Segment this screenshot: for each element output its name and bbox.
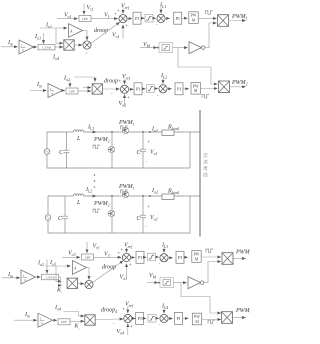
transistor Q2 circuit2: [93, 195, 115, 233]
node Im input row2: [30, 82, 46, 91]
node Vo1 wire row1: [57, 13, 78, 20]
svg-text:母: 母: [203, 166, 208, 172]
svg-text:Im: Im: [36, 82, 42, 89]
source V1: [44, 149, 50, 155]
svg-text:Vo2: Vo2: [119, 101, 127, 108]
summer V row1: [119, 15, 127, 23]
wire PWM to gate row4: [202, 319, 221, 321]
node VM label: [140, 42, 159, 49]
wire comparator to NOT: [173, 47, 188, 49]
wire droop row2: [103, 79, 120, 97]
svg-text:Vrf: Vrf: [87, 5, 94, 12]
svg-text:PWM4: PWM4: [235, 308, 250, 315]
svg-text:Io2: Io2: [37, 261, 44, 268]
summer V row4: [124, 314, 132, 322]
capacitor Cin2: [58, 196, 68, 233]
node Vo3 wire row3: [62, 251, 80, 258]
svg-text:Io2: Io2: [151, 188, 158, 195]
svg-text:Io2: Io2: [63, 76, 70, 83]
summer droop row3: [85, 280, 93, 288]
svg-text:PWM2: PWM2: [93, 137, 110, 144]
multiplier X1 row1: [64, 40, 74, 50]
multiplier X row3: [67, 278, 77, 288]
svg-text:Vo1: Vo1: [64, 13, 72, 20]
resistor Rload1: [162, 125, 180, 136]
svg-text:PWM1: PWM1: [118, 184, 135, 191]
node bus label: [203, 152, 208, 179]
svg-text:+: +: [119, 79, 122, 84]
limiter row4: [144, 315, 156, 323]
svg-text:流: 流: [203, 159, 208, 166]
node Io1 circuit1: [149, 127, 158, 134]
node IL2 row2: [160, 73, 167, 84]
PI controller U2 row1: [165, 12, 182, 24]
svg-text:Io1: Io1: [151, 127, 158, 134]
svg-text:PWM2: PWM2: [231, 80, 248, 87]
NOT gate U6: [188, 277, 204, 289]
summer I row2: [155, 85, 168, 98]
node Io1 wire row1: [40, 23, 67, 44]
node Io3 label row1: [34, 33, 44, 44]
gate multiplier row1: [218, 15, 229, 27]
wire comparator down to gate row4: [181, 283, 221, 313]
inductor L1: [74, 130, 84, 142]
droop diagonal row3: [93, 256, 123, 283]
svg-text:Io4: Io4: [54, 305, 61, 312]
svg-text:droop4: droop4: [101, 308, 117, 315]
PWM generator row1: [182, 12, 199, 24]
wire amp to filter row2: [63, 90, 65, 92]
wire amp to filter row4: [53, 319, 57, 321]
summer droop row1: [83, 41, 91, 55]
svg-text:+: +: [117, 8, 120, 13]
node PWM4 output row4: [233, 308, 252, 318]
svg-text:Vref: Vref: [122, 74, 131, 81]
amplifier 1/n row3: [21, 270, 36, 284]
node Vo2 circuit2: [146, 204, 158, 229]
PI controller U2 row3: [168, 251, 184, 263]
resistor Rload2: [162, 189, 180, 200]
wire PWM to gate row3: [201, 256, 221, 258]
transistor Q2 circuit1: [93, 131, 115, 168]
svg-text:droop: droop: [104, 79, 118, 85]
svg-text:Rload: Rload: [167, 125, 180, 132]
svg-text:VM: VM: [149, 273, 157, 280]
node PWM1 output row1: [229, 14, 248, 21]
svg-text:droop: droop: [94, 28, 108, 34]
filter LPF3 row3: [42, 274, 59, 280]
wire AC bus: [199, 110, 201, 237]
svg-text:V1: V1: [104, 13, 110, 20]
node IL3 row3: [161, 243, 168, 253]
wire X1 to summer row1: [74, 44, 82, 46]
PI controller U1 row1: [127, 12, 141, 24]
PI controller U2 row4: [168, 312, 182, 324]
svg-text:Vo4: Vo4: [117, 329, 125, 336]
svg-text:+: +: [148, 204, 151, 209]
wire droop row4: [95, 308, 123, 327]
svg-text:Rload: Rload: [167, 189, 180, 196]
node Vo4 feedback row4: [117, 324, 134, 336]
droop diagonal row1: [91, 20, 119, 44]
svg-text:+: +: [148, 139, 151, 144]
pulse glyph row4: [208, 320, 215, 323]
svg-text:+: +: [129, 262, 132, 267]
node Io2 label row2: [63, 76, 70, 87]
source V2: [45, 215, 51, 221]
PI controller U1 row3: [131, 251, 144, 263]
filter LPF1 row1: [38, 44, 55, 50]
amplifier 1/n row4: [38, 313, 53, 327]
capacitor Cin1: [59, 132, 70, 168]
wire comparator down to gate row2: [178, 48, 217, 84]
wire PWM to gate row1: [198, 17, 216, 19]
svg-text:IL1: IL1: [87, 125, 94, 132]
node PWM3 output row3: [233, 250, 252, 259]
node Im input row3: [2, 272, 20, 279]
svg-text:Vo2: Vo2: [150, 215, 158, 222]
svg-text:Io4: Io4: [52, 55, 59, 62]
wire NOT up to gate row1: [205, 23, 216, 48]
svg-text:IL4: IL4: [161, 304, 168, 311]
svg-text:1: 1: [86, 51, 88, 55]
transistor Q1 circuit2: [118, 184, 135, 198]
wire PWM to gate row2: [200, 88, 217, 90]
svg-text:IL1: IL1: [159, 3, 166, 10]
wire circuit2 top rail: [48, 195, 200, 197]
svg-text:PWM2: PWM2: [93, 201, 110, 208]
transistor Q1 circuit1: [118, 120, 135, 134]
amplifier 1/n row2: [48, 84, 63, 98]
node Io2 bracket row2: [74, 77, 95, 82]
multiplier X row2: [92, 84, 102, 94]
svg-text:Vref: Vref: [125, 302, 134, 309]
svg-text:PWM1: PWM1: [231, 14, 248, 21]
gate multiplier row4: [222, 312, 233, 324]
node Io2 circuit2: [149, 188, 158, 197]
pulse glyph row3: [206, 249, 213, 252]
limiter row3: [144, 253, 156, 261]
svg-text:Vref: Vref: [121, 4, 130, 11]
PWM generator row3: [184, 251, 201, 263]
svg-text:Vo3: Vo3: [120, 275, 128, 282]
summer V row3: [122, 253, 130, 261]
svg-text:Io3: Io3: [49, 260, 56, 267]
wire NOT up to gate row3: [204, 262, 221, 283]
node Io4 bracket row4: [54, 305, 84, 316]
svg-text:PWM1: PWM1: [118, 120, 135, 127]
PI controller U1 row4: [132, 312, 144, 324]
gate multiplier row3: [222, 253, 233, 265]
gate multiplier row2: [219, 81, 230, 93]
node PWM2 output row2: [230, 80, 248, 87]
node Io2 label row3: [37, 260, 47, 274]
node Im input row1: [1, 40, 18, 47]
filter LPF4 row4: [58, 319, 80, 331]
pulse glyph row2: [202, 95, 209, 98]
multiplier X row4: [85, 315, 95, 325]
svg-text:Im: Im: [7, 40, 13, 47]
svg-text:+: +: [127, 95, 130, 100]
summer V row2: [120, 85, 128, 93]
capacitor Co2: [137, 195, 147, 233]
node Im input row4: [14, 312, 37, 320]
node Vo1 circuit1: [146, 139, 158, 164]
limiter row1: [141, 14, 153, 22]
svg-text:IL2: IL2: [85, 187, 92, 194]
wire amp to filter row3: [36, 276, 41, 278]
svg-text:+: +: [121, 247, 124, 252]
wire LPF1 to multiplier row1: [52, 47, 63, 61]
node dots between circuits: [94, 174, 96, 188]
summer I row3: [156, 254, 169, 266]
wire circuit1 top rail: [47, 131, 200, 133]
limiter row2: [142, 85, 155, 93]
NOT gate U3: [189, 42, 205, 54]
node IL4 row4: [161, 304, 168, 314]
PWM generator row2: [183, 83, 200, 95]
svg-text:Vref: Vref: [124, 243, 133, 250]
wire circuit2 loop: [48, 196, 190, 233]
node Vo2 feedback row2: [119, 95, 131, 108]
PI controller U1 row2: [129, 83, 142, 95]
node VM label row3: [147, 273, 160, 284]
wire k to summer row3: [87, 268, 90, 280]
svg-text:Io3: Io3: [34, 34, 41, 41]
PWM generator row4: [183, 313, 202, 325]
wire LPF to multiplier row2: [78, 88, 91, 92]
wire LPF4 to multiplier row4: [70, 320, 84, 322]
svg-text:+: +: [130, 324, 133, 329]
svg-text:线: 线: [203, 172, 208, 179]
node Io3 wire row3: [45, 260, 71, 281]
wire LPF3 to multiplier row3: [56, 277, 62, 295]
amplifier 1/n row1: [19, 40, 34, 54]
gain k row1: [69, 24, 83, 38]
comparator block row3: [160, 278, 174, 288]
svg-text:L: L: [76, 200, 81, 206]
wire amp to filter row1: [34, 46, 37, 48]
svg-text:Vo3: Vo3: [68, 251, 76, 258]
svg-text:Im: Im: [24, 312, 30, 319]
node Vref row3: [121, 243, 133, 253]
PI controller U2 row2: [167, 83, 183, 95]
node Vref row1: [117, 4, 130, 14]
node IL2 circuit2: [85, 187, 96, 196]
svg-text:交: 交: [203, 152, 208, 159]
comparator block: [159, 43, 173, 53]
svg-text:IL3: IL3: [161, 243, 168, 250]
wire k to summer row1: [83, 31, 88, 41]
svg-text:Vo1: Vo1: [150, 150, 158, 157]
node IL1 circuit1: [87, 125, 96, 133]
node V3 wire row3: [94, 251, 122, 259]
svg-text:IL2: IL2: [160, 73, 167, 80]
node Vo3 feedback row3: [120, 262, 133, 281]
summer I row1: [153, 14, 165, 27]
svg-text:+: +: [122, 307, 125, 312]
node Vref row2: [119, 74, 131, 84]
inductor L2: [74, 194, 84, 206]
svg-text:+: +: [126, 23, 129, 28]
filter LPF row2: [66, 88, 78, 94]
svg-text:PWM3: PWM3: [235, 250, 250, 257]
wire comparator to NOT row3: [174, 282, 187, 284]
node Vo1 feedback row1: [112, 23, 129, 39]
svg-text:L: L: [76, 136, 81, 142]
summer I row4: [156, 314, 168, 327]
gain k row3: [73, 261, 87, 275]
node Vref row4: [122, 302, 134, 314]
filter V row3: [82, 242, 100, 260]
pulse glyph row1: [206, 11, 213, 14]
capacitor Co1: [137, 131, 147, 168]
node V1 wire row1: [91, 12, 118, 20]
svg-text:Vrf: Vrf: [93, 244, 100, 251]
wire X to summer row3: [78, 282, 84, 285]
node IL1 row1: [159, 3, 166, 14]
wire circuit1 loop: [47, 132, 190, 168]
filter V row1: [79, 4, 94, 22]
svg-text:Vo1: Vo1: [112, 33, 120, 40]
